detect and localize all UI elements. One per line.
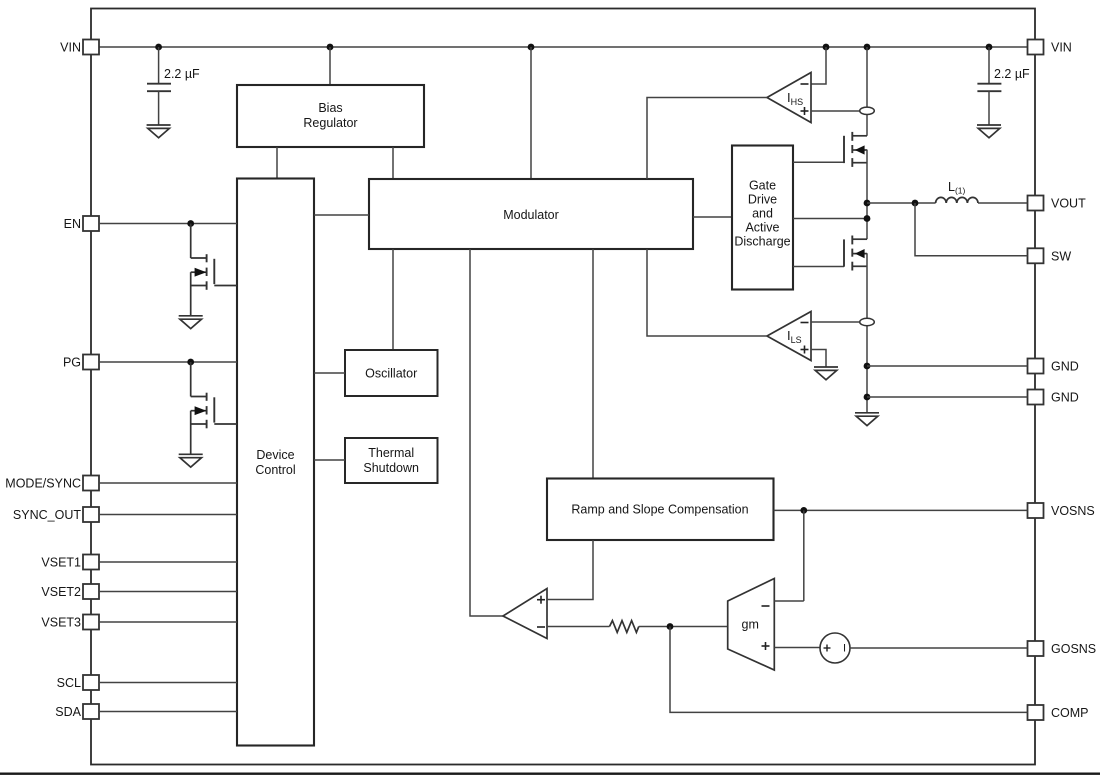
pin SW — [1028, 248, 1044, 263]
block Oscillator — [345, 350, 438, 396]
svg-text:Regulator: Regulator — [303, 116, 357, 130]
svg-text:VOUT: VOUT — [1051, 197, 1086, 211]
node active discharge junction — [864, 215, 871, 222]
block Thermal Shutdown — [345, 438, 438, 483]
wire ILS plus input to ground — [811, 350, 826, 368]
node VIN-C2 junction — [986, 44, 993, 51]
wire Gate Drive to HS gate — [793, 161, 844, 163]
node inductor-SW branch junction — [912, 200, 919, 207]
ground under Q2 — [179, 454, 203, 467]
wire Modulator to error amp output — [470, 249, 503, 616]
svg-text:VSET1: VSET1 — [41, 556, 81, 570]
wire Device Control to Oscillator — [314, 372, 345, 374]
wire VOSNS junction to gm minus — [803, 510, 805, 601]
node EN junction — [187, 220, 194, 227]
wire SW branch to SW pin — [915, 203, 1028, 256]
block Modulator — [369, 179, 693, 249]
wire error amp plus to Ramp bottom — [547, 540, 593, 600]
wire EN pin to Device Control — [99, 223, 237, 225]
wire VSET3 to Device Control — [99, 621, 237, 623]
svg-text:Active: Active — [745, 221, 779, 235]
wire VIN to Bias Regulator — [329, 47, 331, 85]
ground at ILS plus input — [814, 367, 838, 380]
svg-text:Bias: Bias — [318, 101, 342, 115]
node GND upper junction — [864, 363, 871, 370]
current sense ellipse (LS) — [860, 318, 875, 325]
node VIN-IHS junction — [823, 44, 830, 51]
wire to GND pin upper — [867, 365, 1028, 367]
op-amp error amplifier — [503, 589, 547, 639]
wire COMP node to COMP pin — [670, 627, 1028, 713]
wire inductor to VOUT pin — [978, 202, 1028, 204]
capacitor C1 plates — [147, 83, 171, 85]
capacitor C2 lead bottom — [988, 91, 990, 125]
wire VIN rail — [99, 46, 1028, 48]
wire gm minus input — [774, 600, 804, 602]
wire PG pin to Device Control — [99, 361, 237, 363]
svg-text:SW: SW — [1051, 249, 1071, 263]
current sense ellipse (HS) — [860, 107, 875, 114]
pin VOSNS — [1028, 503, 1044, 518]
block Ramp and Slope Compensation — [547, 479, 774, 541]
transistor Q1 (EN pulldown FET) — [191, 224, 237, 316]
wire Modulator to Ramp block — [592, 249, 594, 479]
op-amp IHS comparator — [767, 73, 811, 123]
wire Gate Drive to LS gate — [793, 266, 844, 268]
wire Modulator to Oscillator — [392, 249, 394, 350]
svg-text:Discharge: Discharge — [734, 235, 790, 249]
capacitor C1 lead bottom — [158, 91, 160, 125]
svg-text:VIN: VIN — [60, 41, 81, 55]
svg-text:MODE/SYNC: MODE/SYNC — [5, 477, 81, 491]
pin PG — [83, 355, 99, 370]
current source I1 — [820, 633, 850, 663]
wire Bias to Modulator — [392, 147, 394, 179]
transistor Q2 (PG pulldown FET) — [191, 362, 237, 454]
ground under C2 — [977, 125, 1001, 138]
pin COMP — [1028, 705, 1044, 720]
wire Ramp output to VOSNS — [774, 509, 1028, 511]
inductor L(1) — [936, 197, 978, 203]
wire IHS plus input to sense — [811, 110, 860, 112]
wire current source to GOSNS pin — [850, 647, 1028, 649]
svg-text:GND: GND — [1051, 360, 1079, 374]
svg-text:Ramp and Slope Compensation: Ramp and Slope Compensation — [571, 503, 748, 517]
capacitor C1 2.2uF lead top — [158, 47, 160, 84]
wire VSET2 to Device Control — [99, 591, 237, 593]
ground under Q1 — [179, 316, 203, 329]
svg-text:Control: Control — [255, 463, 295, 477]
wire SYNC_OUT to Device Control — [99, 514, 237, 516]
svg-text:PG: PG — [63, 356, 81, 370]
svg-text:Modulator: Modulator — [503, 208, 559, 222]
op-amp ILS comparator — [767, 312, 811, 361]
svg-text:EN: EN — [64, 217, 81, 231]
wire resistor to COMP node — [639, 626, 728, 628]
bottom page rule — [0, 773, 1100, 775]
pin VSET3 — [83, 615, 99, 630]
node COMP junction — [667, 623, 674, 630]
svg-text:VIN: VIN — [1051, 41, 1072, 55]
pin GND (lower) — [1028, 390, 1044, 405]
svg-text:I: I — [843, 643, 846, 655]
pin VIN (right) — [1028, 40, 1044, 55]
block Device Control — [237, 179, 314, 746]
svg-text:SCL: SCL — [57, 676, 81, 690]
svg-text:VOSNS: VOSNS — [1051, 504, 1095, 518]
node VIN-Bias junction — [327, 44, 334, 51]
svg-text:Shutdown: Shutdown — [363, 461, 419, 475]
svg-text:GOSNS: GOSNS — [1051, 642, 1096, 656]
svg-text:Gate: Gate — [749, 179, 776, 193]
pin EN — [83, 216, 99, 231]
wire gm plus input to current source — [774, 647, 820, 649]
wire Device Control to Thermal Shutdown — [314, 459, 345, 461]
wire Modulator to Gate Drive — [693, 216, 732, 218]
block Bias Regulator — [237, 85, 424, 147]
transistor LS power FET — [844, 236, 867, 271]
wire ILS minus input to sense — [811, 321, 860, 323]
svg-text:VSET2: VSET2 — [41, 585, 81, 599]
pin GOSNS — [1028, 641, 1044, 656]
resistor R1 — [610, 621, 639, 633]
svg-text:SYNC_OUT: SYNC_OUT — [13, 508, 81, 522]
svg-text:Drive: Drive — [748, 193, 777, 207]
node GND lower junction — [864, 394, 871, 401]
wire Bias to Device Control — [276, 147, 278, 179]
svg-text:COMP: COMP — [1051, 706, 1089, 720]
node VIN-Modulator junction — [528, 44, 535, 51]
block Gate Drive and Active Discharge — [732, 146, 793, 290]
capacitor C2 plates — [977, 83, 1001, 85]
ground under C1 — [147, 125, 171, 138]
svg-text:2.2 µF: 2.2 µF — [994, 67, 1030, 81]
pin MODE/SYNC — [83, 476, 99, 491]
wire SCL to Device Control — [99, 682, 237, 684]
wire SDA to Device Control — [99, 711, 237, 713]
ground power stage — [855, 413, 879, 426]
node PG junction — [187, 359, 194, 366]
svg-text:GND: GND — [1051, 391, 1079, 405]
wire HS source to LS drain — [866, 150, 868, 240]
svg-text:Thermal: Thermal — [368, 446, 414, 460]
pin VSET2 — [83, 584, 99, 599]
wire VIN to HS drain — [866, 47, 868, 136]
pin VIN (left) — [83, 40, 99, 55]
svg-text:VSET3: VSET3 — [41, 616, 81, 630]
svg-text:2.2 µF: 2.2 µF — [164, 67, 200, 81]
wire LS source to ground — [866, 253, 868, 413]
svg-text:and: and — [752, 207, 773, 221]
wire SW node to inductor — [867, 202, 936, 204]
node VIN power stage junction — [864, 44, 871, 51]
pin VSET1 — [83, 555, 99, 570]
node VIN-C1 junction — [155, 44, 162, 51]
wire VIN to Modulator — [530, 47, 532, 179]
wire MODE/SYNC to Device Control — [99, 482, 237, 484]
wire to GND pin lower — [867, 396, 1028, 398]
svg-text:Oscillator: Oscillator — [365, 367, 417, 381]
capacitor C2 2.2uF lead top — [988, 47, 990, 84]
wire Gate Drive active discharge to SW node — [793, 218, 867, 220]
transistor HS power FET — [844, 132, 867, 167]
pin SYNC_OUT — [83, 507, 99, 522]
svg-text:Device: Device — [256, 448, 294, 462]
svg-text:gm: gm — [742, 618, 759, 632]
pin VOUT — [1028, 196, 1044, 211]
wire VSET1 to Device Control — [99, 561, 237, 563]
pin SDA — [83, 704, 99, 719]
svg-text:SDA: SDA — [55, 705, 81, 719]
wire IHS output to Modulator — [647, 98, 767, 180]
wire ILS output to Modulator — [647, 249, 767, 336]
op-amp gm transconductance amplifier — [728, 579, 775, 671]
wire error amp minus to resistor — [547, 626, 610, 628]
wire IHS minus input to VIN — [811, 47, 826, 84]
node SW-VOUT junction — [864, 200, 871, 207]
pin SCL — [83, 675, 99, 690]
wire Device Control to Modulator — [314, 214, 369, 216]
node VOSNS junction — [800, 507, 807, 514]
pin GND (upper) — [1028, 359, 1044, 374]
